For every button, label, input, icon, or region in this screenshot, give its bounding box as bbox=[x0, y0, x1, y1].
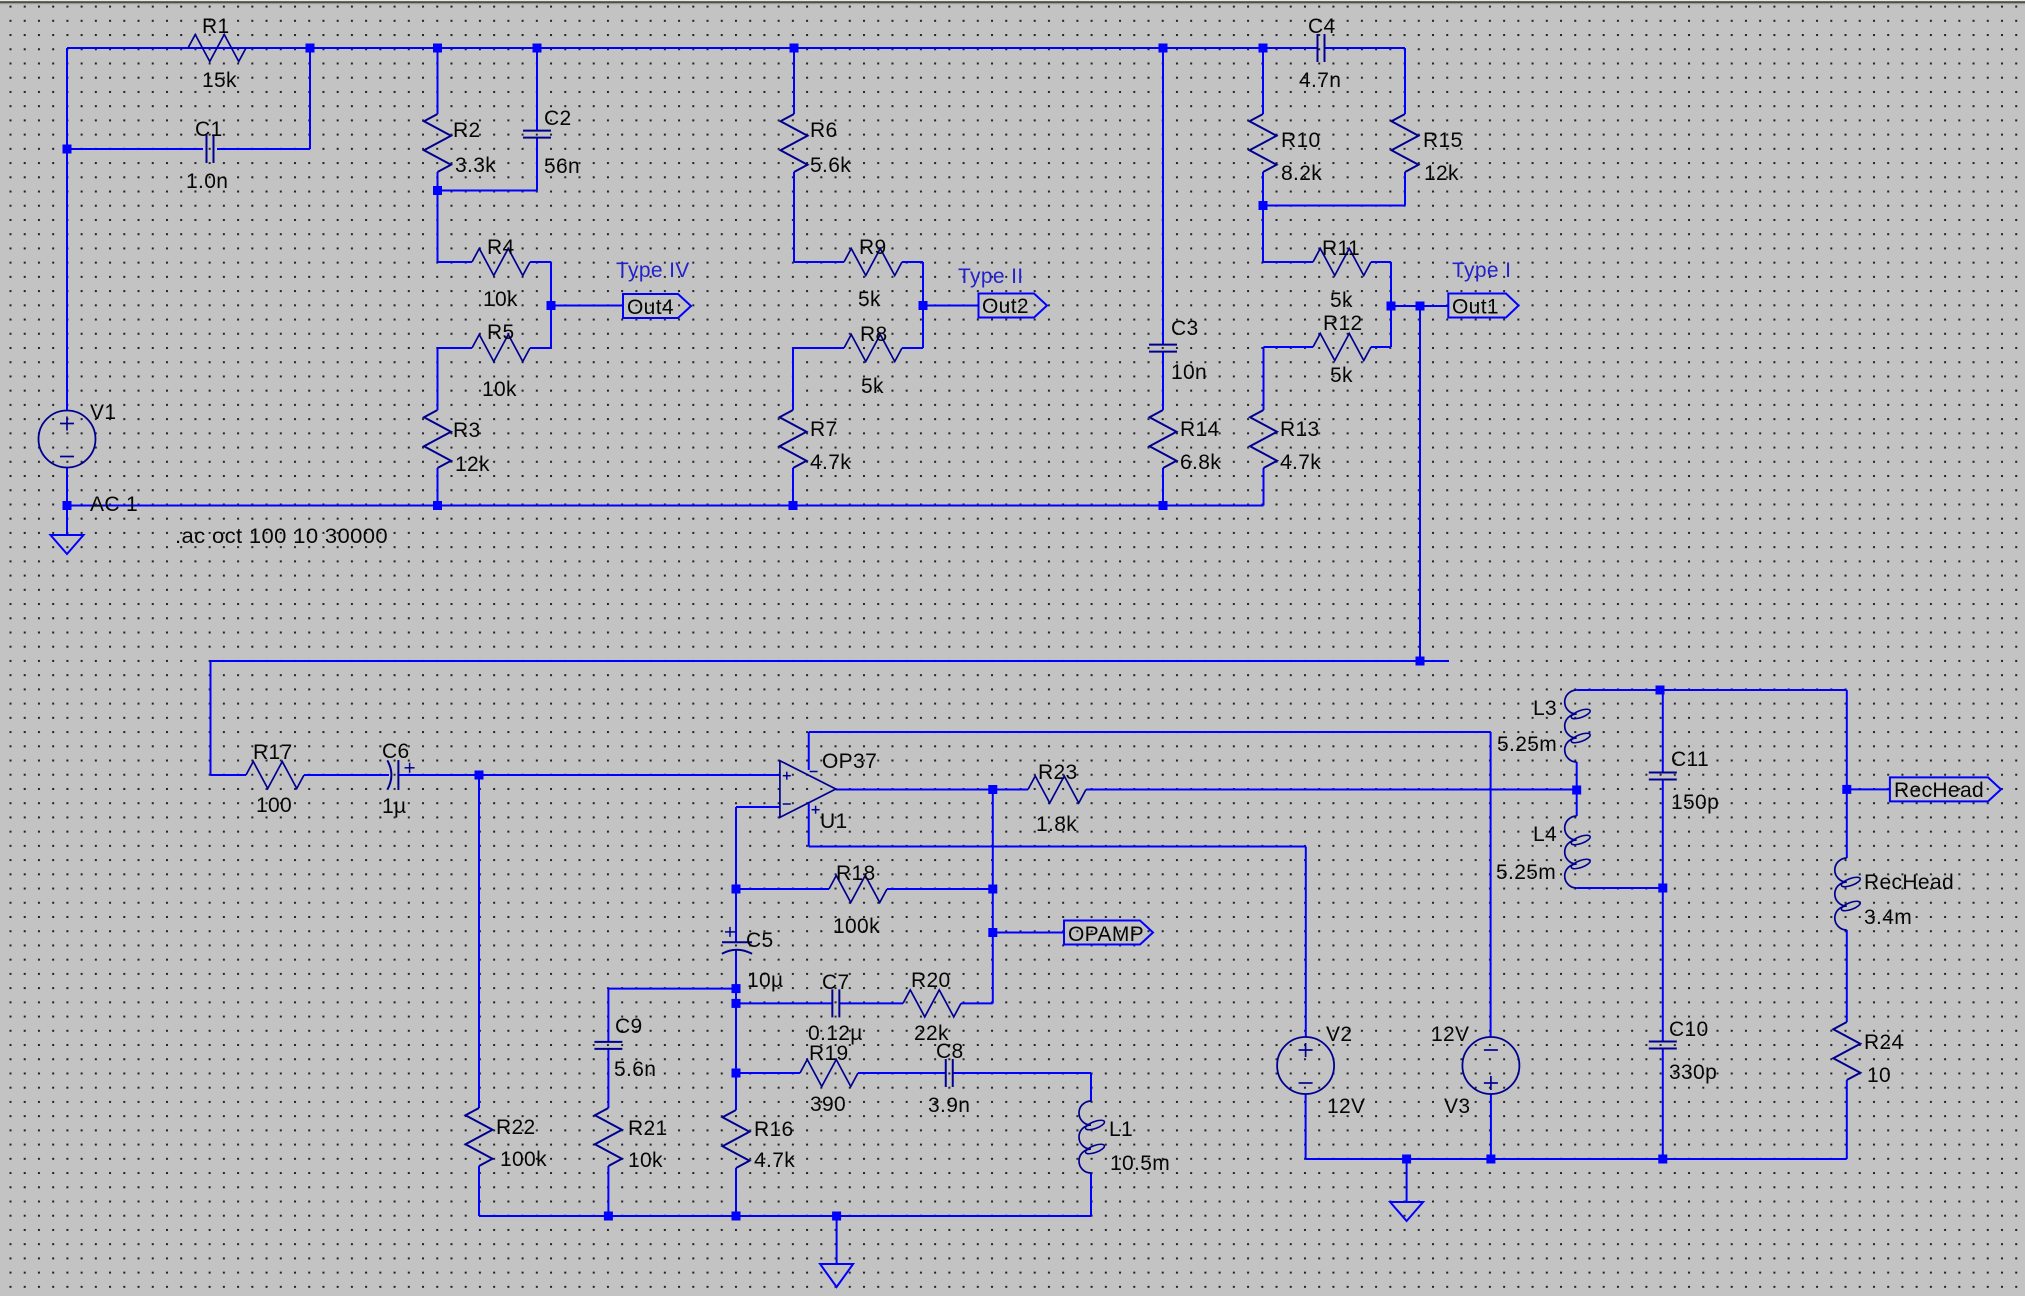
wire R21 bottom lead bbox=[607, 1166, 609, 1216]
ground ground at V1 bbox=[51, 535, 84, 554]
svg-text:3.4m: 3.4m bbox=[1864, 906, 1912, 929]
svg-text:C10: C10 bbox=[1669, 1018, 1709, 1041]
node C4j bbox=[1416, 302, 1425, 311]
svg-text:4.7k: 4.7k bbox=[754, 1149, 795, 1172]
wire R5 left lead bbox=[438, 347, 473, 349]
wire Out1-R12 drop bbox=[1390, 306, 1392, 347]
wire R20 right lead bbox=[961, 1002, 993, 1004]
node B1 bbox=[63, 145, 72, 154]
wire L4 bottom link bbox=[1577, 887, 1663, 889]
wire R12 left lead bbox=[1264, 346, 1314, 348]
node B2 bbox=[433, 186, 442, 195]
node E3 bbox=[988, 785, 997, 794]
svg-text:3.3k: 3.3k bbox=[455, 154, 496, 177]
inductor L3 bbox=[1497, 690, 1591, 762]
wire gnd1 stub bbox=[836, 1216, 838, 1264]
wire R10 bottom lead bbox=[1262, 172, 1264, 206]
wire C8 right lead bbox=[953, 1072, 1091, 1074]
node E1 bbox=[1416, 657, 1425, 666]
wire opamp V- pin bbox=[808, 732, 810, 770]
node F1 bbox=[732, 885, 741, 894]
svg-text:OP37: OP37 bbox=[822, 750, 877, 773]
wire R12-R13 link bbox=[1263, 347, 1265, 410]
svg-text:C7: C7 bbox=[822, 971, 850, 994]
resistor R2 bbox=[424, 114, 496, 177]
svg-text:R21: R21 bbox=[628, 1117, 668, 1140]
resistor R19 bbox=[800, 1042, 858, 1116]
svg-text:10µ: 10µ bbox=[747, 969, 784, 992]
wire bottom rail bbox=[67, 505, 1264, 507]
capacitor C10 bbox=[1649, 1018, 1717, 1084]
svg-text:5k: 5k bbox=[861, 375, 884, 398]
node G1 bbox=[732, 984, 741, 993]
wire C1 right bbox=[217, 148, 310, 150]
svg-text:R15: R15 bbox=[1423, 129, 1463, 152]
wire R10 top lead bbox=[1262, 48, 1264, 114]
node D3 bbox=[789, 501, 798, 510]
node J1 bbox=[1402, 1155, 1411, 1164]
wire L3 bottom stub bbox=[1576, 762, 1578, 790]
wire top rail left of C4 bbox=[67, 47, 1318, 49]
wire R9 left lead bbox=[794, 261, 844, 263]
svg-text:100k: 100k bbox=[500, 1148, 547, 1171]
svg-text:C8: C8 bbox=[936, 1040, 964, 1063]
inductor L1 bbox=[1079, 1101, 1170, 1175]
wire L1 bottom lead bbox=[1090, 1173, 1092, 1216]
svg-text:5k: 5k bbox=[858, 288, 881, 311]
svg-text:Out2: Out2 bbox=[982, 295, 1029, 318]
wire R14 bottom lead bbox=[1162, 468, 1164, 506]
wire V- rail bbox=[809, 731, 1491, 733]
svg-text:5.6n: 5.6n bbox=[614, 1058, 656, 1081]
wire gnd stub V1 bbox=[66, 506, 68, 536]
svg-text:4.7n: 4.7n bbox=[1299, 69, 1341, 92]
resistor R14 bbox=[1150, 410, 1222, 474]
resistor R11 bbox=[1313, 237, 1371, 312]
svg-text:12V: 12V bbox=[1431, 1023, 1469, 1046]
node D1 bbox=[63, 501, 72, 510]
node A1 bbox=[306, 44, 315, 53]
wire C11 bottom lead bbox=[1662, 780, 1664, 889]
wire R24 bottom lead bbox=[1846, 1080, 1848, 1159]
wire R15 top lead bbox=[1404, 48, 1406, 114]
voltage source V1 bbox=[39, 411, 96, 468]
wire R23 right lead bbox=[1086, 789, 1577, 791]
svg-text:R5: R5 bbox=[487, 321, 515, 344]
node Out2 output flag bbox=[979, 294, 1048, 319]
svg-text:R12: R12 bbox=[1323, 312, 1363, 335]
wire feedback drop left bbox=[210, 661, 212, 775]
svg-text:R8: R8 bbox=[860, 323, 888, 346]
node J2 bbox=[1486, 1155, 1495, 1164]
capacitor C7 bbox=[808, 971, 863, 1045]
svg-text:L1: L1 bbox=[1109, 1118, 1133, 1141]
wire opamp output bbox=[836, 789, 1028, 791]
svg-text:10k: 10k bbox=[482, 378, 517, 401]
capacitor C3 bbox=[1149, 317, 1207, 384]
resistor R24 bbox=[1833, 1022, 1903, 1087]
svg-text:100: 100 bbox=[256, 794, 292, 817]
wire gnd3 stub bbox=[1406, 1159, 1408, 1202]
wire R19 left lead bbox=[736, 1072, 800, 1074]
wire C11 top lead bbox=[1662, 690, 1664, 773]
node Out1 output flag bbox=[1448, 294, 1518, 319]
resistor R9 bbox=[844, 236, 902, 311]
wire R8 left lead bbox=[793, 347, 844, 349]
svg-text:5.25m: 5.25m bbox=[1496, 861, 1556, 884]
wire R19-C8 link bbox=[858, 1072, 946, 1074]
svg-text:10: 10 bbox=[1867, 1064, 1891, 1087]
resistor R15 bbox=[1392, 114, 1463, 185]
voltage source V2 bbox=[1277, 1037, 1334, 1094]
svg-text:1.0n: 1.0n bbox=[186, 170, 228, 193]
wire top rail right of C4 bbox=[1325, 47, 1406, 49]
wire R4-Out4 drop bbox=[550, 262, 552, 306]
wire C7-R20 link bbox=[839, 1002, 903, 1004]
svg-text:R14: R14 bbox=[1180, 418, 1220, 441]
wire minus input drop bbox=[735, 807, 737, 889]
node H2 bbox=[732, 1212, 741, 1221]
svg-text:Type I: Type I bbox=[1452, 259, 1511, 282]
svg-text:R1: R1 bbox=[202, 15, 230, 38]
node A5 bbox=[1159, 44, 1168, 53]
voltage source V3 bbox=[1462, 1037, 1519, 1094]
svg-text:56n: 56n bbox=[544, 155, 580, 178]
svg-text:R24: R24 bbox=[1864, 1031, 1904, 1054]
ground ground lower-left bbox=[820, 1264, 853, 1287]
svg-text:AC 1: AC 1 bbox=[90, 493, 138, 516]
wire R6 top lead bbox=[793, 48, 795, 114]
capacitor C1 bbox=[186, 118, 228, 193]
wire C5 top lead bbox=[735, 889, 737, 942]
wire R22 top lead bbox=[478, 775, 480, 1108]
wire R4 left lead bbox=[438, 261, 473, 263]
svg-text:390: 390 bbox=[810, 1093, 846, 1116]
node C3j bbox=[1387, 302, 1396, 311]
wire R5 right lead bbox=[530, 347, 551, 349]
wire R2 top lead bbox=[437, 48, 439, 114]
node F2 bbox=[988, 885, 997, 894]
svg-text:R23: R23 bbox=[1038, 761, 1078, 784]
svg-text:RecHead: RecHead bbox=[1864, 871, 1954, 894]
wire V+ drop to V2 bbox=[1305, 847, 1307, 1038]
svg-text:Type II: Type II bbox=[958, 265, 1023, 288]
wire R11 left lead bbox=[1263, 261, 1313, 263]
svg-text:150p: 150p bbox=[1671, 791, 1719, 814]
resistor R16 bbox=[723, 1110, 796, 1172]
node H1 bbox=[604, 1212, 613, 1221]
wire C5 bottom lead bbox=[735, 950, 737, 989]
resistor R17 bbox=[246, 741, 304, 817]
resistor R21 bbox=[595, 1108, 668, 1172]
svg-text:R4: R4 bbox=[487, 236, 515, 259]
wire C2 bottom lead bbox=[536, 138, 538, 191]
wire C10 bottom lead bbox=[1662, 1049, 1664, 1160]
wire Out1 lead bbox=[1391, 305, 1448, 307]
node J3 bbox=[1658, 1155, 1667, 1164]
resistor R23 bbox=[1028, 761, 1086, 836]
node A4 bbox=[790, 44, 799, 53]
svg-text:L3: L3 bbox=[1533, 697, 1557, 720]
svg-text:V3: V3 bbox=[1444, 1095, 1470, 1118]
svg-text:R16: R16 bbox=[754, 1118, 794, 1141]
wire C7 left lead bbox=[736, 1002, 832, 1004]
wire L1 top lead bbox=[1090, 1073, 1092, 1101]
svg-text:V1: V1 bbox=[90, 401, 116, 424]
wire R5-R3 link bbox=[437, 348, 439, 410]
capacitor C9 bbox=[594, 1015, 656, 1081]
node E2 bbox=[475, 771, 484, 780]
wire V+ rail bbox=[809, 846, 1306, 848]
svg-text:10k: 10k bbox=[483, 288, 518, 311]
resistor R5 bbox=[472, 321, 530, 401]
resistor R8 bbox=[844, 323, 902, 398]
capacitor C4 bbox=[1299, 15, 1341, 92]
wire R8 right lead bbox=[902, 347, 923, 349]
wire C9 top lead bbox=[607, 989, 609, 1042]
wire R12 right lead bbox=[1371, 346, 1391, 348]
wire V1 to top rail bbox=[66, 48, 68, 411]
svg-text:15k: 15k bbox=[202, 69, 237, 92]
svg-text:R7: R7 bbox=[810, 418, 838, 441]
wire node to R4 bbox=[437, 191, 439, 263]
inductor RecHead bbox=[1835, 858, 1954, 930]
wire R11 right lead bbox=[1371, 261, 1391, 263]
svg-text:Type IV: Type IV bbox=[616, 259, 690, 282]
svg-text:R20: R20 bbox=[911, 969, 951, 992]
svg-text:R19: R19 bbox=[809, 1042, 849, 1065]
node Out4 output flag bbox=[623, 294, 691, 319]
capacitor C11 bbox=[1649, 748, 1719, 814]
node C2j bbox=[919, 301, 928, 310]
wire C1 left bbox=[67, 148, 203, 150]
node I3 bbox=[1842, 785, 1851, 794]
wire R17-C6 link bbox=[304, 774, 389, 776]
wire R16 top lead bbox=[735, 1073, 737, 1110]
node A6 bbox=[1259, 44, 1268, 53]
wire R13 bottom lead bbox=[1263, 468, 1265, 506]
node E4 bbox=[1572, 786, 1581, 795]
svg-text:C1: C1 bbox=[195, 118, 223, 141]
wire OPAMP flag lead bbox=[993, 932, 1064, 934]
svg-text:4.7k: 4.7k bbox=[1280, 451, 1321, 474]
svg-text:R2: R2 bbox=[453, 119, 481, 142]
resistor R18 bbox=[829, 862, 887, 938]
wire R16 bottom lead bbox=[735, 1168, 737, 1216]
svg-text:1µ: 1µ bbox=[382, 795, 406, 818]
wire V1 bottom bbox=[66, 468, 68, 506]
node H3 bbox=[832, 1212, 841, 1221]
node B3 bbox=[1259, 201, 1268, 210]
svg-text:100k: 100k bbox=[833, 915, 880, 938]
wire R4 right lead bbox=[530, 261, 551, 263]
svg-text:8.2k: 8.2k bbox=[1281, 162, 1322, 185]
wire R2-C2 link bbox=[438, 190, 538, 192]
svg-text:C11: C11 bbox=[1671, 748, 1709, 771]
wire R10-R15 bottom link bbox=[1263, 205, 1405, 207]
svg-text:V2: V2 bbox=[1326, 1023, 1352, 1046]
wire R22 bottom lead bbox=[478, 1166, 480, 1216]
svg-text:12V: 12V bbox=[1327, 1095, 1365, 1118]
wire V2 bottom lead bbox=[1305, 1094, 1307, 1159]
resistor R1 bbox=[188, 15, 246, 92]
svg-text:12k: 12k bbox=[455, 453, 490, 476]
svg-text:U1: U1 bbox=[820, 810, 848, 833]
node G3 bbox=[732, 1069, 741, 1078]
svg-text:C4: C4 bbox=[1308, 15, 1336, 38]
wire node drop 1 bbox=[735, 989, 737, 1004]
wire lower-left ground rail bbox=[479, 1215, 1091, 1217]
wire C10 top lead bbox=[1662, 888, 1664, 1042]
wire R9 right lead bbox=[902, 261, 923, 263]
svg-text:RecHead: RecHead bbox=[1894, 779, 1984, 802]
wire opamp V+ pin bbox=[808, 803, 810, 847]
svg-text:L4: L4 bbox=[1533, 823, 1557, 846]
wire R18 left lead bbox=[736, 888, 829, 890]
svg-text:4.7k: 4.7k bbox=[810, 451, 851, 474]
node D2 bbox=[433, 501, 442, 510]
svg-text:10k: 10k bbox=[628, 1149, 663, 1172]
wire V3 bottom lead bbox=[1490, 1094, 1492, 1159]
resistor R6 bbox=[781, 114, 852, 177]
ground ground lower-right bbox=[1390, 1202, 1423, 1221]
wire R9-Out2 drop bbox=[922, 262, 924, 306]
wire R2 bottom lead bbox=[437, 172, 439, 191]
node RecHead output flag bbox=[1890, 777, 2001, 802]
wire C3 top lead bbox=[1162, 48, 1164, 345]
wire feedback rail bbox=[211, 660, 1450, 662]
node C1j bbox=[547, 301, 556, 310]
wire Out2-R8 drop bbox=[922, 306, 924, 349]
svg-text:OPAMP: OPAMP bbox=[1068, 923, 1144, 946]
wire Out2 lead bbox=[923, 305, 979, 307]
capacitor C6 (polarized) bbox=[382, 740, 415, 818]
svg-text:R10: R10 bbox=[1281, 129, 1321, 152]
svg-text:10.5m: 10.5m bbox=[1110, 1152, 1170, 1175]
svg-text:5.25m: 5.25m bbox=[1497, 733, 1557, 756]
resistor R10 bbox=[1250, 114, 1323, 185]
wire RecHead-R24 link bbox=[1846, 930, 1848, 1022]
wire R15 bottom lead bbox=[1404, 172, 1406, 206]
wire node to R11 bbox=[1262, 206, 1264, 263]
svg-text:R11: R11 bbox=[1322, 237, 1360, 260]
svg-text:C6: C6 bbox=[382, 740, 410, 763]
wire R3 bottom lead bbox=[437, 468, 439, 506]
svg-text:C9: C9 bbox=[615, 1015, 643, 1038]
wire R18 right lead bbox=[887, 888, 993, 890]
wire V- drop to V3 bbox=[1490, 732, 1492, 1037]
wire RecHead flag lead bbox=[1847, 788, 1890, 790]
inductor L4 bbox=[1496, 816, 1591, 888]
svg-text:R3: R3 bbox=[453, 419, 481, 442]
wire C9-R21 link bbox=[607, 1049, 609, 1108]
resistor R13 bbox=[1250, 410, 1321, 474]
wire lower-right ground rail bbox=[1306, 1158, 1847, 1160]
svg-text:.ac oct 100 10 30000: .ac oct 100 10 30000 bbox=[175, 525, 388, 548]
wire R6-R9 link bbox=[793, 172, 795, 262]
node D4 bbox=[1159, 501, 1168, 510]
svg-text:R6: R6 bbox=[810, 119, 838, 142]
svg-text:5k: 5k bbox=[1330, 364, 1353, 387]
capacitor C5 (polarized) bbox=[722, 927, 784, 992]
wire RecHead top lead bbox=[1846, 690, 1848, 858]
resistor R20 bbox=[903, 969, 961, 1045]
svg-text:1.8k: 1.8k bbox=[1036, 813, 1077, 836]
node I2 bbox=[1658, 884, 1667, 893]
node F3 bbox=[988, 928, 997, 937]
node OPAMP output flag bbox=[1064, 921, 1153, 947]
wire R17 left lead bbox=[211, 774, 247, 776]
svg-text:Out1: Out1 bbox=[1452, 296, 1499, 319]
resistor R22 bbox=[466, 1108, 548, 1171]
node A3 bbox=[533, 44, 542, 53]
wire L4 top stub bbox=[1576, 790, 1578, 816]
node G2 bbox=[732, 999, 741, 1008]
svg-text:6.8k: 6.8k bbox=[1180, 451, 1221, 474]
wire Out4-R5 drop bbox=[550, 306, 552, 349]
resistor R4 bbox=[472, 236, 530, 311]
wire C5-C9 link bbox=[608, 988, 736, 990]
resistor R7 bbox=[780, 410, 852, 474]
wire C2 top lead bbox=[536, 48, 538, 131]
capacitor C8 bbox=[928, 1040, 970, 1117]
wire opamp node vertical bbox=[992, 790, 994, 1003]
svg-text:R13: R13 bbox=[1280, 418, 1320, 441]
svg-text:5.6k: 5.6k bbox=[810, 154, 851, 177]
wire Out1 feedback drop bbox=[1419, 306, 1421, 661]
svg-text:5k: 5k bbox=[1330, 289, 1353, 312]
svg-text:Out4: Out4 bbox=[627, 296, 674, 319]
wire R7 bottom lead bbox=[792, 468, 794, 506]
svg-text:C3: C3 bbox=[1171, 317, 1199, 340]
wire Out4 lead bbox=[551, 305, 623, 307]
capacitor C2 bbox=[523, 107, 580, 178]
wire opamp minus input bbox=[736, 806, 780, 808]
wire C6 to opamp plus input bbox=[398, 774, 780, 776]
resistor R3 bbox=[424, 410, 490, 476]
svg-text:12k: 12k bbox=[1424, 162, 1459, 185]
wire head top rail bbox=[1577, 689, 1847, 691]
wire R8-R7 link bbox=[792, 348, 794, 410]
svg-text:R17: R17 bbox=[253, 741, 293, 764]
op-amp U1 OP37 bbox=[780, 750, 877, 833]
wire C3-R14 link bbox=[1162, 352, 1164, 410]
svg-text:R18: R18 bbox=[836, 862, 876, 885]
svg-text:C5: C5 bbox=[746, 929, 774, 952]
node I1 bbox=[1656, 686, 1665, 695]
svg-text:R22: R22 bbox=[496, 1116, 536, 1139]
svg-text:R9: R9 bbox=[859, 236, 887, 259]
wire node drop 2 bbox=[735, 1003, 737, 1073]
node A2 bbox=[433, 44, 442, 53]
svg-text:10n: 10n bbox=[1171, 361, 1207, 384]
resistor R12 bbox=[1313, 312, 1371, 387]
svg-text:330p: 330p bbox=[1669, 1061, 1717, 1084]
svg-text:3.9n: 3.9n bbox=[928, 1094, 970, 1117]
wire R11-Out1 drop bbox=[1390, 262, 1392, 306]
wire C1 branch up bbox=[309, 48, 311, 149]
svg-text:C2: C2 bbox=[544, 107, 572, 130]
